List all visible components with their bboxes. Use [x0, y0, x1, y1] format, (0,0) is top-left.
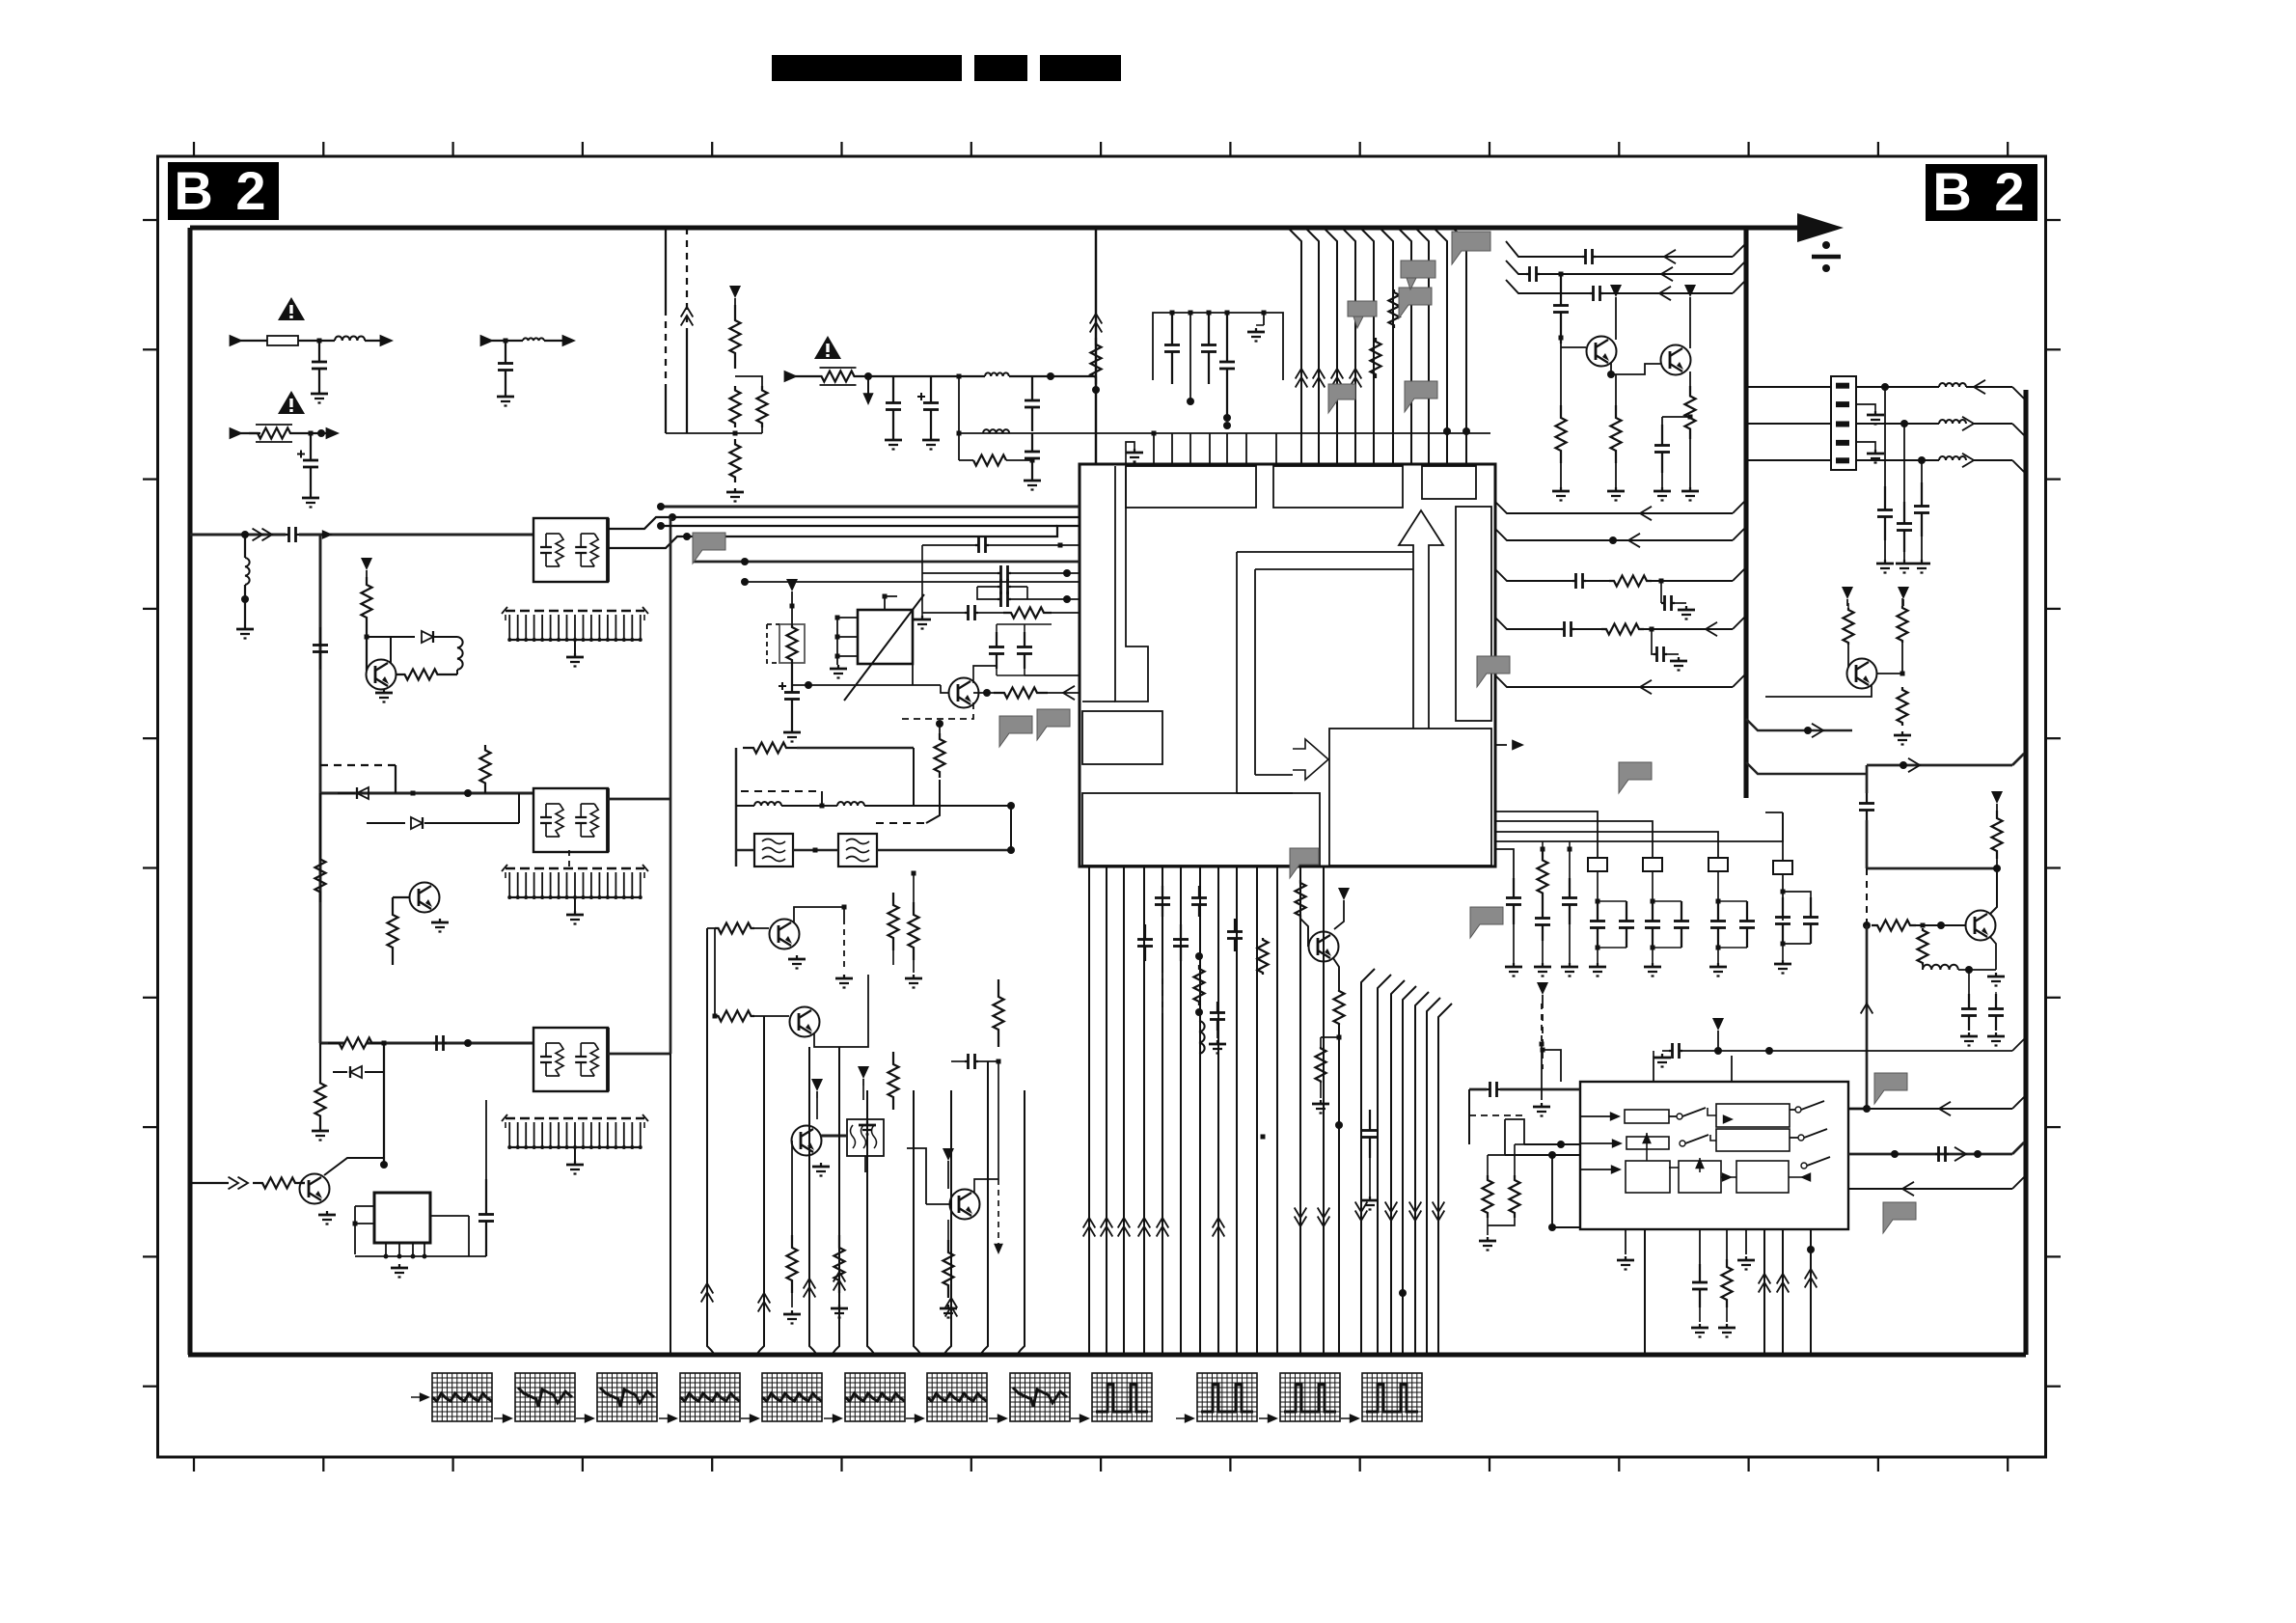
row J1	[1748, 386, 1831, 388]
resistor R2	[362, 577, 372, 625]
inductor L8	[1939, 420, 1966, 424]
wire Q1 base	[366, 659, 368, 671]
dashed v	[843, 919, 845, 970]
wire Q11	[1689, 304, 1691, 348]
wire ladder to bus	[687, 432, 735, 434]
ground G2	[505, 393, 506, 397]
inductor L9	[1939, 456, 1966, 460]
ground G13	[921, 616, 923, 619]
svg-text:B 2: B 2	[174, 160, 269, 221]
power feed P13	[1712, 1018, 1724, 1031]
switch unit box	[1580, 1082, 1848, 1229]
power feed P9	[1842, 587, 1853, 599]
IC U2 pins	[355, 1205, 374, 1207]
wire L3 node	[244, 535, 246, 558]
switch input row2	[1524, 1143, 1580, 1145]
wire RF input	[190, 1182, 229, 1184]
bus A vertical drop	[319, 535, 322, 1043]
transistor Q11	[1661, 345, 1691, 375]
capacitor C18	[1921, 460, 1923, 482]
bus A arrow	[322, 530, 333, 539]
filter module FL1	[533, 518, 608, 582]
IC left pin row 1	[661, 506, 1080, 509]
resistor R8	[315, 1072, 326, 1127]
ground G14	[837, 665, 839, 669]
wire Q1 cell	[456, 670, 458, 674]
dashed drop	[1866, 868, 1868, 925]
row y603 wire	[745, 581, 1080, 583]
resistor R29	[1611, 405, 1622, 463]
inductor L4	[457, 637, 463, 670]
wire bundle centre-left	[707, 1090, 715, 1355]
connector J1	[1831, 376, 1856, 470]
wire Q13 col	[1990, 868, 1997, 914]
row A3 cap	[1506, 280, 1590, 293]
switch blk 6	[1716, 1104, 1790, 1127]
loop box above IC	[1153, 313, 1283, 380]
resistor R25	[787, 1235, 798, 1293]
inductor L10	[1922, 965, 1924, 970]
bus C wire	[320, 1042, 344, 1045]
row y615 cap pair	[977, 587, 998, 599]
wire centre rail	[913, 873, 915, 902]
IC U1 main outline	[1080, 464, 1495, 867]
resistor R26	[834, 1235, 845, 1293]
svg-text:B 2: B 2	[1932, 161, 2028, 222]
row C4	[1495, 675, 1733, 687]
power feed P12	[1537, 982, 1548, 995]
bundle chevrons	[1083, 1218, 1096, 1228]
comb DL3	[506, 1117, 644, 1119]
switch contacts	[1677, 1114, 1682, 1119]
dashed box link	[1468, 1089, 1470, 1144]
resistor R35	[1918, 928, 1928, 965]
resistor R34	[1992, 811, 2003, 859]
vertical feed x690	[665, 228, 667, 309]
resistor R21	[715, 923, 754, 934]
capacitor C21	[1513, 878, 1515, 898]
bus drop x1935	[1866, 765, 1869, 793]
junction bus B	[411, 791, 416, 796]
crystal pins	[837, 617, 858, 619]
dashed feed	[1542, 1002, 1544, 1069]
resistor R17	[1389, 289, 1400, 328]
callout flag CF3	[693, 533, 725, 564]
vertical link x695	[670, 517, 672, 799]
divide symbol	[1812, 255, 1841, 259]
resistor R20	[935, 733, 945, 778]
capacitor C22	[1569, 849, 1571, 878]
bundle resistor Rb	[1258, 938, 1269, 975]
diode D2	[357, 787, 369, 799]
callout flag CF4	[999, 716, 1032, 747]
gray bus down x1935	[1866, 925, 1869, 1082]
callout flag CF11	[1452, 232, 1490, 264]
capacitor C1	[318, 341, 320, 362]
power feed P7	[1610, 285, 1622, 297]
waveform scope graticule 3	[597, 1373, 657, 1421]
inductor L3	[245, 558, 250, 585]
resistor R39	[1337, 1035, 1342, 1040]
resonator Z3	[1708, 858, 1728, 871]
wire input L2	[482, 340, 523, 342]
inductor L1	[335, 337, 365, 342]
callout flag CF13	[1348, 301, 1377, 328]
callout flag CF6	[1477, 656, 1510, 687]
bus B out	[608, 798, 670, 801]
warning triangle W1	[278, 297, 305, 320]
waveform scope graticule 12	[1362, 1373, 1422, 1421]
ceramic filter CF-B	[838, 834, 877, 867]
ground G11	[892, 436, 894, 440]
bundle arrows	[701, 1283, 714, 1294]
inductor L7	[1939, 383, 1966, 387]
callout flag CF2	[1405, 381, 1437, 412]
switch input row1	[1469, 1088, 1487, 1091]
IC U1 block G left	[1082, 711, 1162, 764]
transistor Q8	[950, 1190, 980, 1220]
resistor R16	[1091, 338, 1102, 384]
callout flag CF9	[1874, 1073, 1907, 1104]
junction chain	[957, 374, 962, 379]
diode D4	[350, 1066, 362, 1078]
row A1 cap	[1506, 241, 1582, 257]
IC U1 block D tall	[1456, 507, 1491, 721]
power feed P5	[858, 1066, 869, 1079]
wire bundle stubs	[706, 928, 708, 1090]
IC U1 note flag	[1290, 848, 1319, 878]
waveform scope graticule 9	[1092, 1373, 1152, 1421]
wire Q2 base	[393, 896, 409, 898]
IC U1 up arrow	[1399, 510, 1443, 729]
resistor R27	[943, 1240, 954, 1298]
switch out row3	[1848, 1188, 2012, 1190]
resistor R9	[253, 1178, 305, 1189]
inductor L12	[822, 805, 837, 807]
resistor R37	[1483, 1175, 1493, 1218]
waveform scope graticule 4	[680, 1373, 740, 1421]
J1 gnd stubs	[1856, 404, 1875, 411]
vertical feed x1136	[1095, 228, 1097, 464]
border tick marks	[193, 142, 195, 156]
callout flag CF8	[1470, 907, 1503, 938]
transistor Q2	[410, 883, 440, 913]
filter module FL3	[533, 1028, 608, 1091]
wire L1 out	[365, 340, 386, 342]
wire Q7 base	[791, 1141, 793, 1235]
crystal top wire	[885, 596, 897, 610]
transistor Q7	[792, 1126, 822, 1156]
wire J row1	[1856, 386, 1939, 388]
transistor Q13	[1966, 911, 1996, 941]
wire comb2 link	[568, 850, 570, 868]
res cap cell	[994, 979, 1004, 1047]
power feed P4	[811, 1079, 823, 1091]
warning triangle W2	[278, 391, 305, 414]
top caps switch	[1653, 1051, 1654, 1056]
gray trunk to switch	[1848, 1082, 1867, 1109]
coupling cap row3	[922, 544, 975, 546]
bus A wire	[190, 534, 286, 536]
waveform scope graticule 1	[432, 1373, 492, 1421]
bus A junction	[241, 531, 249, 538]
capacitor C2	[505, 341, 506, 364]
row C2 res	[1495, 569, 1572, 581]
wire Q12	[1847, 645, 1849, 668]
IC U1 internal bus path	[1236, 552, 1238, 793]
capacitor C10	[1226, 313, 1228, 362]
loop gnd hook	[1263, 313, 1265, 325]
loop caps	[1171, 313, 1173, 345]
inductor L2	[523, 338, 544, 341]
wire Q10	[1615, 304, 1617, 340]
row y647 wire	[921, 545, 923, 613]
inductor L5	[985, 372, 1009, 376]
ground G10	[734, 488, 736, 492]
vertical feed x712	[686, 228, 688, 333]
fuse F1	[267, 336, 298, 345]
callout flag CF1	[1399, 288, 1432, 318]
wire R2 node	[366, 625, 368, 659]
bus D wire	[693, 561, 1080, 564]
callout flag CF7	[1619, 762, 1652, 793]
transistor Q4	[949, 678, 979, 708]
bus C cap	[433, 1042, 437, 1044]
transistor Q3	[300, 1174, 330, 1204]
wire U2 right	[430, 1215, 469, 1217]
capacitor C15	[1661, 425, 1663, 446]
wire Q4 coll	[973, 666, 997, 683]
diode D1	[367, 636, 415, 638]
resistor R6	[388, 897, 398, 965]
resistor R3	[396, 670, 446, 680]
wire L2 out	[544, 340, 569, 342]
switch blk 2	[1626, 1137, 1669, 1149]
ground G3	[310, 494, 312, 498]
capacitor C19	[1968, 970, 1970, 994]
warning triangle W3	[814, 336, 841, 359]
row C1	[1495, 529, 1733, 540]
ground G15	[791, 729, 793, 732]
filter loop top	[735, 748, 737, 867]
resistor R11	[730, 386, 741, 427]
capacitor C20	[1995, 992, 1997, 994]
IC right step wires	[1495, 811, 1598, 858]
resistor R12	[730, 439, 741, 482]
dashed row	[876, 822, 926, 824]
transistor Q12	[1847, 659, 1877, 689]
resonator Z2	[1643, 858, 1662, 871]
switch blk 7	[1716, 1129, 1790, 1151]
IC U1 block C	[1422, 466, 1476, 499]
capacitor C12	[1024, 632, 1025, 647]
bus arrow right	[1797, 213, 1844, 242]
IC U1 internal partition	[1115, 466, 1148, 701]
capacitor C4	[319, 627, 321, 646]
wire Q8 col	[974, 1179, 998, 1193]
switch out row1	[1848, 1108, 2012, 1110]
resistor R1 fusible	[249, 428, 299, 439]
IC U1 block B	[1273, 466, 1403, 508]
filter loop bottom	[736, 849, 754, 851]
capacitor C8	[1031, 376, 1033, 400]
waveform scope graticule 7	[927, 1373, 987, 1421]
bundle dash	[1162, 973, 1163, 1015]
power feed P15	[1338, 888, 1350, 900]
inductor L6	[983, 429, 1009, 433]
row y1089	[1717, 1037, 1719, 1051]
wire D3 drop	[518, 793, 520, 823]
dashed vert	[1541, 1004, 1543, 1044]
switch blk 5	[1736, 1161, 1789, 1193]
switch internal wires	[1580, 1115, 1617, 1117]
bundle resistor Ra	[1194, 965, 1205, 1005]
wire input R1	[232, 432, 260, 434]
resistor R18	[1371, 338, 1381, 378]
thermistor TH1	[779, 624, 805, 663]
row B out	[1495, 502, 1733, 513]
IC U1 block E lower right	[1329, 729, 1491, 866]
wire input L1	[232, 340, 267, 342]
chain node1	[864, 372, 872, 380]
wire Q3 collector	[324, 1158, 384, 1175]
ground G9	[398, 1264, 400, 1268]
node x1136	[1092, 386, 1100, 394]
transistor Q5	[770, 920, 800, 949]
waveform scope graticule 11	[1280, 1373, 1340, 1421]
ground G5	[383, 689, 385, 693]
cap pair X2	[1782, 897, 1784, 918]
resistor R24	[888, 1052, 899, 1110]
power feed P1	[361, 558, 372, 570]
ground G4	[244, 625, 246, 629]
crystal X2	[1782, 812, 1784, 862]
capacitor C14	[1560, 274, 1562, 306]
IC left pin row 2	[661, 525, 1057, 527]
wire bundle IC bottom	[1088, 867, 1090, 1355]
callout flag CF14	[1328, 384, 1355, 413]
wire J row3	[1856, 459, 1939, 461]
cluster y940	[909, 902, 919, 960]
row links caps	[997, 623, 1025, 625]
resistor R19	[994, 688, 1048, 699]
bus C out	[608, 1053, 670, 1056]
wire chain input	[786, 375, 815, 377]
switch blk 4	[1679, 1161, 1721, 1193]
comb DL2	[506, 867, 644, 869]
capacitor C5	[485, 1179, 487, 1215]
resistor R32	[1898, 606, 1908, 643]
page border frame	[158, 156, 2046, 1457]
wire Q6 emitter	[814, 975, 868, 1047]
resistor R4	[480, 745, 491, 788]
bus trunk vertical mid	[1743, 228, 1748, 798]
wire fuse to node	[298, 340, 335, 342]
row J3	[1748, 459, 1831, 461]
ground G1	[318, 390, 320, 394]
bus fan top right	[1399, 229, 1411, 464]
bundle caps	[1144, 924, 1146, 940]
ground G12	[930, 436, 932, 440]
bus fan top	[1289, 229, 1301, 464]
IC U1 right arrow	[1293, 739, 1328, 780]
schematic frame left edge	[187, 228, 192, 1355]
switch input row4	[1505, 1119, 1524, 1144]
wire Q4 base	[913, 684, 941, 686]
callout flag CF12	[1401, 261, 1435, 289]
switch bottom pins	[1625, 1229, 1626, 1254]
resistor R23	[888, 893, 899, 950]
title redaction bar 2	[974, 55, 1027, 81]
resonator Z1	[1588, 858, 1607, 871]
title redaction bar 1	[772, 55, 962, 81]
wire x690 bend	[666, 432, 687, 434]
row J2	[1748, 423, 1831, 425]
wire Q8 base	[926, 1203, 949, 1205]
switch input row3	[1505, 1154, 1580, 1156]
capacitor C17	[1903, 424, 1905, 502]
resistor R14 fusible	[815, 371, 861, 382]
filter loop dashed	[741, 790, 822, 792]
inductor L11	[736, 805, 754, 807]
wire J row2	[1856, 423, 1939, 425]
node dots bus A	[669, 513, 676, 521]
wire Q3 base	[299, 1182, 305, 1184]
schematic frame bottom edge	[188, 1352, 2026, 1357]
ground G17	[820, 1163, 822, 1167]
waveform scope graticule 10	[1197, 1373, 1257, 1421]
zone label B2 top-left	[168, 162, 279, 220]
resistor R15	[973, 455, 1006, 466]
bus B dashed tap	[320, 764, 396, 766]
power feed P10	[1898, 587, 1909, 599]
waveform scope graticule 8	[1010, 1373, 1070, 1421]
resistor R22	[715, 1011, 754, 1022]
wire bundle bottom-right	[1361, 969, 1375, 1355]
resistor R28	[1556, 405, 1567, 463]
row y449 wire	[959, 432, 1490, 434]
wire Q11 e	[1689, 439, 1691, 454]
transistor Q10	[1587, 337, 1617, 367]
IC top pin wires	[1153, 433, 1155, 464]
transistor Q1	[367, 660, 396, 690]
transistor Q9	[1309, 932, 1339, 962]
dashed v2	[998, 1179, 999, 1245]
crystal X1	[858, 610, 913, 664]
resistor R7	[328, 1038, 383, 1049]
wire Q7 out	[821, 1135, 847, 1138]
IC U1 block A	[1126, 466, 1256, 508]
wire r15 stub	[959, 459, 973, 461]
transistor Q6	[790, 1007, 820, 1037]
row C3 res	[1495, 618, 1561, 629]
wire Q5 col	[794, 907, 844, 922]
bus trunk vertical right	[2023, 390, 2028, 1355]
wire R21R22 rail	[714, 928, 716, 1016]
node d	[936, 720, 943, 728]
wire R13 link	[735, 432, 762, 434]
switch arrows	[1610, 1112, 1621, 1121]
ground G6	[439, 919, 441, 922]
wire R5	[319, 793, 321, 849]
wire left arrow	[1495, 744, 1507, 746]
zone label B2 top-right	[1926, 164, 2037, 221]
ground G7	[319, 1127, 321, 1131]
ground G16	[796, 955, 798, 959]
row y635 cap res	[922, 612, 965, 614]
row A2 cap	[1506, 261, 1526, 274]
switch blk 3	[1626, 1161, 1670, 1193]
